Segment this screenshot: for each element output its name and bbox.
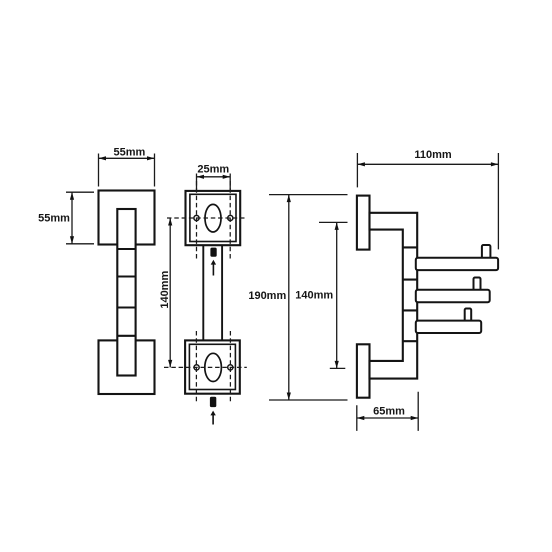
middle view: top plate screw holes — [194, 215, 199, 220]
dimensions: thin lines — [66, 153, 498, 431]
right view: top wall plate — [357, 196, 370, 250]
dim 65mm: dimension line — [357, 417, 418, 419]
110mm arrows — [357, 162, 365, 166]
middle view: arrow pointing at top set screw — [211, 260, 216, 276]
25mm arrows — [197, 175, 205, 179]
middle view: bottom plate oval hole — [205, 353, 222, 381]
dim 190mm: ticks — [269, 195, 348, 400]
dim 140mm right: ticks — [319, 222, 348, 368]
middle view: set screw bottom — [210, 397, 216, 407]
dim 65mm: extension lines — [357, 392, 418, 431]
svg-text:140mm: 140mm — [295, 290, 333, 302]
top plate horizontal centerline — [167, 217, 247, 219]
middle view: top plate inner — [190, 194, 236, 241]
right view: hook 3 tab — [465, 309, 472, 323]
right view: arm + post outline — [370, 213, 418, 379]
svg-text:25mm: 25mm — [197, 163, 229, 175]
right view: hook 2 — [416, 290, 490, 302]
140mm middle arrows — [168, 218, 172, 226]
right view: hook 1 — [416, 258, 498, 270]
140mm right arrows — [335, 222, 339, 230]
svg-text:65mm: 65mm — [373, 406, 405, 418]
dim 140mm right: dimension line — [336, 222, 338, 368]
bottom plate vertical hole centerlines — [195, 331, 197, 404]
svg-text:190mm: 190mm — [248, 290, 286, 302]
left view: bottom square plate — [99, 340, 155, 394]
55mm top arrows — [99, 156, 107, 160]
dim 190mm: dimension line — [288, 195, 290, 400]
middle view: top plate oval hole — [205, 204, 221, 232]
middle view: bottom plate outer — [185, 340, 240, 393]
dim 140mm middle: dimension line — [169, 218, 171, 367]
right view: bottom wall plate — [357, 344, 370, 397]
middle view: arrow pointing at bottom set screw — [210, 411, 215, 425]
left view: bar joint lines — [117, 249, 135, 336]
dim 110mm: extension lines — [357, 153, 498, 249]
right view: hook 1 tab — [482, 245, 491, 259]
left view: top square plate — [99, 191, 155, 245]
dimension arrowheads — [70, 156, 499, 420]
55mm left arrows — [70, 192, 74, 200]
dim 25mm: dimension line — [197, 176, 231, 178]
middle view: top plate outer — [186, 191, 241, 245]
dim 110mm: dimension line — [357, 163, 498, 165]
middle view: set screw top — [210, 248, 216, 257]
right view: post joint lines — [403, 247, 417, 341]
65mm arrows — [357, 416, 365, 420]
svg-text:110mm: 110mm — [414, 149, 452, 161]
svg-text:55mm: 55mm — [38, 213, 70, 225]
svg-text:140mm: 140mm — [159, 271, 171, 309]
dim 55mm left: dimension line — [71, 192, 73, 244]
bottom plate horizontal centerline — [164, 366, 247, 368]
dim 55mm top: extension lines — [99, 154, 155, 187]
dim 25mm: extension lines — [197, 174, 231, 192]
svg-text:55mm: 55mm — [114, 147, 146, 159]
left view: vertical bar — [117, 209, 135, 376]
right view: hook 2 tab — [474, 278, 481, 292]
middle view: bottom plate inner — [189, 344, 235, 389]
dim 55mm top: dimension line — [99, 157, 155, 159]
top plate vertical hole centerlines — [196, 181, 198, 259]
190mm arrows — [287, 195, 291, 203]
middle view: bottom plate screw holes — [194, 365, 199, 370]
middle view: dashed centerlines — [164, 181, 247, 404]
right view: hook 3 — [416, 321, 481, 333]
middle view: tube walls — [203, 245, 222, 340]
dim 55mm left: ticks — [66, 192, 94, 244]
